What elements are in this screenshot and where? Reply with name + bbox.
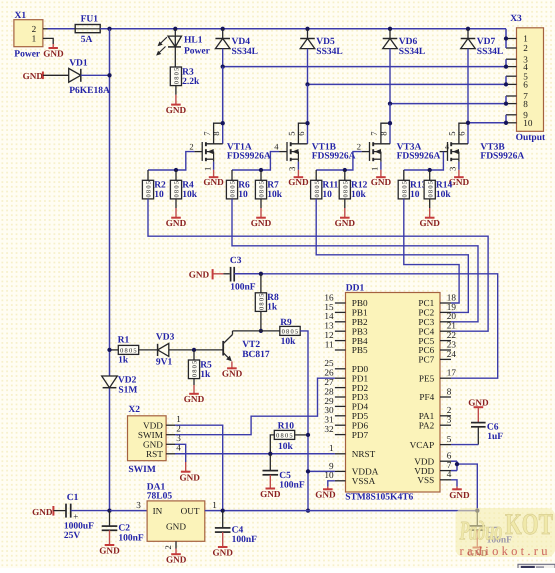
flyback diode VD5 SS34L: [300, 29, 343, 85]
svg-text:100nF: 100nF: [232, 535, 258, 545]
svg-text:GND: GND: [166, 555, 187, 565]
svg-text:6: 6: [456, 131, 466, 136]
svg-text:GND: GND: [335, 218, 356, 228]
wire VD6 to VT3A drain: [389, 104, 391, 124]
svg-text:0805: 0805: [174, 181, 181, 198]
svg-text:+: +: [73, 512, 78, 522]
svg-text:Power: Power: [14, 49, 41, 59]
svg-text:GND: GND: [23, 71, 44, 81]
junction R1 rail: [107, 348, 111, 352]
capacitor C7 100nF: [470, 511, 513, 546]
wire R11 to PC2: [316, 199, 468, 313]
svg-text:GND: GND: [449, 490, 470, 500]
svg-text:1: 1: [370, 167, 380, 171]
svg-text:32: 32: [324, 424, 334, 434]
X3 pair join wires: [505, 29, 507, 123]
svg-text:6: 6: [296, 131, 306, 136]
junction VD4 net: [221, 64, 225, 68]
zener diode VD3 9V1: [156, 332, 223, 367]
junction VDDA rail: [306, 469, 310, 473]
junction R5 top: [192, 348, 196, 352]
svg-text:C4: C4: [232, 525, 244, 535]
svg-text:Output: Output: [516, 133, 546, 143]
svg-text:FDS9926A: FDS9926A: [480, 152, 524, 162]
svg-text:GND: GND: [419, 218, 440, 228]
capacitor C4 100nF: [215, 511, 257, 546]
ground at VSS: [449, 480, 470, 500]
svg-text:GND: GND: [184, 394, 205, 404]
resistor R5 1k: [188, 350, 212, 380]
svg-text:3: 3: [448, 167, 458, 171]
svg-text:10k: 10k: [182, 190, 198, 200]
svg-text:VCAP: VCAP: [410, 440, 435, 450]
power connector X1: [14, 11, 48, 59]
+5V rail wire: [205, 510, 478, 512]
capacitor C2 100nF: [102, 511, 144, 544]
svg-text:SS34L: SS34L: [399, 47, 425, 57]
svg-text:24: 24: [447, 349, 457, 359]
svg-text:PA2: PA2: [419, 420, 435, 430]
svg-text:10: 10: [324, 470, 334, 480]
svg-text:Power: Power: [184, 46, 211, 56]
wire VD4 to VT1A drain: [222, 67, 224, 124]
svg-text:SS34L: SS34L: [316, 47, 342, 57]
junction rail +5V: [306, 508, 310, 512]
ground at X1 pin 1: [43, 38, 64, 58]
ground under R12: [335, 199, 356, 228]
junction R12 top: [343, 168, 347, 172]
svg-text:10k: 10k: [278, 442, 294, 452]
svg-text:FU1: FU1: [81, 14, 99, 24]
flyback diode VD6 SS34L: [383, 29, 426, 104]
wire VDDA to rail: [308, 470, 335, 472]
svg-text:0805: 0805: [146, 181, 153, 198]
svg-text:4: 4: [445, 142, 450, 152]
svg-text:GND: GND: [166, 105, 187, 115]
fuse FU1 5A: [48, 14, 101, 45]
voltage regulator DA1 78L05: [147, 482, 218, 541]
svg-text:2: 2: [32, 24, 37, 34]
svg-text:PB5: PB5: [352, 345, 368, 355]
watermark radiokot panel: [456, 508, 555, 557]
ground left of C1: [32, 506, 66, 517]
svg-text:1: 1: [212, 500, 217, 510]
svg-text:10k: 10k: [351, 190, 367, 200]
svg-text:VD7: VD7: [477, 37, 496, 47]
svg-text:10: 10: [154, 190, 164, 200]
junction VD6: [388, 27, 392, 31]
svg-text:SS34L: SS34L: [477, 47, 503, 57]
svg-text:OUT: OUT: [181, 506, 200, 516]
resistor R6 10: [226, 170, 250, 200]
capacitor C3 100nF: [230, 256, 256, 292]
output connector X3: [506, 14, 546, 143]
wire R13 to PC1: [404, 199, 459, 303]
resistor R3 2.2k: [170, 67, 200, 87]
svg-text:0805: 0805: [314, 181, 321, 198]
junction R7 top: [259, 168, 263, 172]
svg-text:PE5: PE5: [419, 373, 435, 383]
svg-text:100nF: 100nF: [230, 283, 256, 293]
SWIM connector X2: [128, 405, 182, 475]
junction R8 top: [259, 272, 263, 276]
svg-text:C2: C2: [118, 524, 130, 534]
svg-text:GND: GND: [315, 490, 336, 500]
tooltip sliver bottom right: [518, 564, 555, 569]
svg-text:VD4: VD4: [232, 37, 251, 47]
svg-text:3: 3: [136, 500, 141, 510]
svg-text:VD3: VD3: [156, 332, 175, 342]
svg-text:8: 8: [523, 99, 528, 109]
capacitor C1 1000uF 25V: [64, 493, 110, 541]
svg-text:0805: 0805: [230, 181, 237, 198]
svg-text:GND: GND: [189, 270, 210, 280]
svg-text:PD7: PD7: [352, 430, 369, 440]
svg-text:VT2: VT2: [242, 340, 260, 350]
ground under R7: [251, 199, 272, 228]
svg-text:GND: GND: [166, 521, 186, 531]
net wire pins9-10: [468, 122, 506, 124]
svg-text:R9: R9: [280, 318, 292, 328]
svg-text:0805: 0805: [259, 294, 266, 311]
svg-text:1uF: 1uF: [487, 432, 503, 442]
junction VT1B drain: [305, 121, 309, 125]
junction VD6 net: [388, 101, 392, 105]
flyback diode VD7 SS34L: [461, 29, 504, 123]
junction VD7: [466, 27, 470, 31]
svg-text:R1: R1: [118, 336, 130, 346]
MOSFET VT3B FDS9926A: [440, 123, 525, 187]
junction VT2 collector node: [259, 329, 263, 333]
resistor R9 10k: [280, 318, 300, 347]
flyback diode VD4 SS34L: [215, 29, 258, 67]
svg-text:1k: 1k: [267, 303, 278, 313]
svg-text:0805: 0805: [401, 181, 408, 198]
svg-text:8: 8: [211, 131, 221, 135]
resistor R14 10k: [424, 170, 452, 200]
svg-text:VD5: VD5: [316, 37, 335, 47]
svg-text:4: 4: [523, 62, 528, 72]
svg-text:C1: C1: [67, 493, 79, 503]
wire VT3B gate: [404, 152, 444, 170]
svg-text:3: 3: [287, 167, 297, 171]
svg-text:GND: GND: [32, 507, 53, 517]
wire R2 to PC4: [148, 199, 488, 331]
wire R9 to VDD rail: [300, 331, 308, 511]
svg-text:10k: 10k: [436, 190, 452, 200]
svg-text:NRST: NRST: [352, 449, 376, 459]
wire X1 pin2 to fuse: [48, 28, 76, 30]
svg-text:FDS9926A: FDS9926A: [397, 152, 441, 162]
svg-text:5A: 5A: [81, 35, 93, 45]
svg-text:SWIM: SWIM: [128, 465, 155, 475]
svg-text:S1M: S1M: [118, 385, 137, 395]
junction VT3A drain: [388, 121, 392, 125]
wire VT3A gate: [316, 152, 361, 170]
ground under C7: [467, 530, 488, 558]
junction 12V rail: [107, 27, 111, 31]
junction HL1: [173, 27, 177, 31]
svg-text:IN: IN: [153, 506, 163, 516]
svg-text:0805: 0805: [259, 181, 266, 198]
svg-text:GND: GND: [166, 218, 187, 228]
svg-text:0805: 0805: [192, 361, 199, 378]
watermark logo text: [459, 508, 553, 546]
wire VD5 to VT1B drain: [307, 84, 309, 123]
svg-text:HL1: HL1: [184, 36, 203, 46]
ground at X2 pin3: [175, 444, 200, 482]
ground under R4: [166, 199, 187, 228]
svg-text:2: 2: [523, 43, 528, 53]
ground under C4: [212, 532, 233, 557]
ground at VSSA: [315, 481, 336, 500]
net wire pins3-4: [223, 66, 506, 68]
LED HL1 Power: [156, 29, 211, 67]
svg-text:10k: 10k: [281, 337, 297, 347]
svg-text:KOT: KOT: [505, 508, 553, 541]
svg-text:SS34L: SS34L: [232, 47, 258, 57]
svg-text:3: 3: [447, 415, 452, 425]
svg-text:GND: GND: [179, 473, 200, 483]
svg-text:78L05: 78L05: [147, 492, 173, 502]
svg-text:1: 1: [32, 34, 37, 44]
svg-text:GND: GND: [222, 369, 243, 379]
svg-text:25V: 25V: [64, 531, 81, 541]
+12V top bus wire: [100, 28, 506, 30]
svg-text:2.2k: 2.2k: [182, 77, 200, 87]
svg-text:1: 1: [523, 34, 528, 44]
ground under R5: [184, 379, 205, 405]
svg-text:P6KE18A: P6KE18A: [69, 86, 110, 96]
svg-text:2: 2: [163, 545, 173, 549]
junction C7: [475, 508, 479, 512]
svg-text:X2: X2: [128, 405, 140, 415]
resistor R2 10: [142, 170, 166, 200]
svg-text:GND: GND: [43, 49, 64, 59]
svg-text:10k: 10k: [267, 190, 283, 200]
ground left of VD1: [23, 71, 69, 81]
svg-text:VSS: VSS: [417, 475, 434, 485]
wire VDD pins to +5V: [451, 461, 477, 510]
svg-text:0805: 0805: [282, 329, 299, 336]
svg-text:VD6: VD6: [399, 37, 418, 47]
svg-text:1k: 1k: [118, 355, 129, 365]
svg-text:0805: 0805: [276, 433, 293, 440]
resistor R1 1k: [110, 336, 158, 366]
junction R10 right: [306, 433, 310, 437]
svg-text:8: 8: [447, 386, 452, 396]
ground left of C3: [189, 269, 230, 279]
svg-text:VSSA: VSSA: [352, 476, 376, 486]
svg-text:GND: GND: [203, 177, 224, 187]
svg-text:C5: C5: [279, 471, 291, 481]
svg-text:C3: C3: [230, 256, 242, 266]
transistor VT2 BC817: [223, 331, 270, 361]
MOSFET VT3A FDS9926A: [357, 123, 441, 187]
wire VT1A gate: [148, 152, 194, 170]
junction VT3B drain: [466, 121, 470, 125]
svg-text:GND: GND: [260, 489, 281, 499]
svg-text:BC817: BC817: [242, 350, 270, 360]
svg-text:4: 4: [274, 142, 279, 152]
svg-text:10: 10: [410, 190, 420, 200]
ground at VT2 emitter: [222, 361, 243, 378]
svg-text:1k: 1k: [200, 370, 211, 380]
wire X2 VDD to +5V: [175, 425, 223, 510]
junction VD5: [305, 27, 309, 31]
resistor R7 10k: [255, 170, 282, 200]
svg-text:0805: 0805: [120, 348, 137, 355]
svg-text:8: 8: [378, 131, 388, 135]
svg-text:GND: GND: [288, 177, 309, 187]
MOSFET VT1A FDS9926A: [189, 123, 270, 187]
svg-text:STM8S105K4T6: STM8S105K4T6: [345, 493, 413, 503]
junction VD1-rail: [107, 73, 111, 77]
junction R14 top: [428, 168, 432, 172]
net wire pins5-6: [308, 83, 507, 85]
svg-text:10: 10: [238, 190, 248, 200]
net wire pins7-8: [390, 103, 506, 105]
svg-text:1: 1: [329, 443, 334, 453]
svg-text:17: 17: [447, 368, 457, 378]
ground under R3: [166, 86, 187, 115]
svg-text:GND: GND: [251, 218, 272, 228]
resistor R12 10k: [339, 170, 367, 200]
wire R6 to PC3: [232, 199, 478, 322]
svg-text:FDS9926A: FDS9926A: [227, 152, 271, 162]
junction X3 pins3-4: [504, 64, 508, 68]
svg-text:1: 1: [176, 414, 181, 424]
svg-text:GND: GND: [99, 545, 120, 555]
wire X2 SWIM to PD1: [175, 378, 335, 435]
resistor R10 10k: [270, 422, 308, 454]
svg-text:X3: X3: [510, 14, 522, 24]
+12V left rail wire: [109, 29, 111, 511]
junction X3 pins9-10: [504, 121, 508, 125]
wire NRST: [175, 453, 335, 455]
junction R4 top: [174, 168, 178, 172]
junction VT1A drain: [221, 121, 225, 125]
svg-text:6: 6: [523, 80, 528, 90]
wire C3 to PE5: [234, 274, 498, 378]
svg-text:PC7: PC7: [418, 355, 434, 365]
svg-text:R10: R10: [278, 422, 295, 432]
svg-text:RST: RST: [146, 449, 163, 459]
svg-text:9V1: 9V1: [156, 357, 173, 367]
svg-text:0805: 0805: [342, 181, 349, 198]
junction C2 input: [107, 508, 111, 512]
svg-text:GND: GND: [212, 547, 233, 557]
svg-text:FDS9926A: FDS9926A: [312, 152, 356, 162]
svg-text:SWIM: SWIM: [138, 430, 163, 440]
resistor R4 10k: [170, 170, 197, 200]
junction X3 pins7-8: [504, 101, 508, 105]
junction C4: [221, 508, 225, 512]
svg-text:100nF: 100nF: [279, 481, 305, 491]
series diode VD2 S1M: [102, 376, 138, 396]
wire input to DA1: [110, 500, 148, 511]
TVS diode VD1 P6KE18A: [69, 59, 110, 97]
svg-text:10: 10: [523, 118, 533, 128]
svg-text:Радио: Радио: [459, 516, 503, 546]
ground under C5: [260, 475, 281, 499]
svg-text:GND: GND: [468, 397, 489, 407]
wire collector node: [233, 330, 280, 332]
ground under R14: [419, 199, 440, 228]
ground at DA1: [163, 541, 187, 564]
resistor R13 10: [398, 170, 426, 200]
capacitor C5 100nF: [263, 454, 305, 491]
ground under C2: [99, 530, 120, 555]
svg-text:GND: GND: [371, 177, 392, 187]
watermark url text: [460, 544, 549, 558]
svg-text:10: 10: [322, 190, 332, 200]
resistor R11 10: [311, 170, 339, 200]
wire VT1B gate: [232, 152, 279, 170]
svg-text:100nF: 100nF: [118, 533, 144, 543]
svg-text:11: 11: [325, 339, 334, 349]
resistor R8 1k: [255, 274, 279, 331]
MOSFET VT1B FDS9926A: [274, 123, 355, 187]
svg-text:VD1: VD1: [69, 59, 88, 69]
junction R10 left: [268, 452, 272, 456]
svg-text:0805: 0805: [427, 181, 434, 198]
svg-text:5: 5: [447, 434, 452, 444]
capacitor C6 1uF: [451, 397, 503, 444]
svg-text:1: 1: [202, 167, 212, 171]
svg-text:GND: GND: [143, 439, 163, 449]
svg-text:VDD: VDD: [143, 420, 163, 430]
microcontroller DD1 STM8S105K4T6: [324, 284, 456, 503]
junction X3 pins1-2: [504, 36, 508, 40]
junction VD4: [221, 27, 225, 31]
junction VD5 net: [305, 82, 309, 86]
svg-text:0805: 0805: [174, 68, 181, 85]
svg-text:PF4: PF4: [419, 392, 434, 402]
junction X3 pins5-6: [504, 82, 508, 86]
svg-text:2: 2: [357, 142, 361, 152]
svg-text:VD2: VD2: [118, 376, 137, 386]
junction VDD pins: [455, 462, 459, 466]
svg-text:2: 2: [189, 142, 193, 152]
